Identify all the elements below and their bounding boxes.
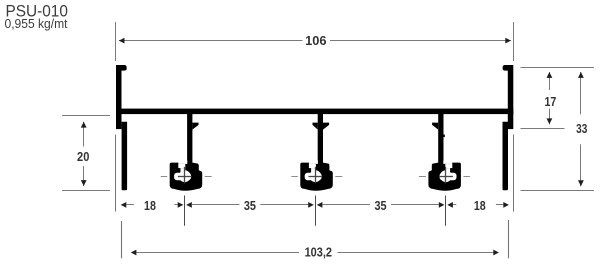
svg-text:20: 20 — [77, 149, 89, 164]
svg-text:35: 35 — [374, 198, 386, 213]
svg-text:0,955 kg/mt: 0,955 kg/mt — [5, 16, 68, 31]
svg-text:18: 18 — [144, 198, 156, 213]
svg-text:103,2: 103,2 — [305, 245, 332, 260]
svg-text:106: 106 — [305, 33, 326, 48]
svg-text:35: 35 — [244, 198, 256, 213]
svg-text:17: 17 — [544, 94, 556, 109]
svg-text:33: 33 — [576, 121, 587, 136]
svg-text:18: 18 — [474, 198, 486, 213]
